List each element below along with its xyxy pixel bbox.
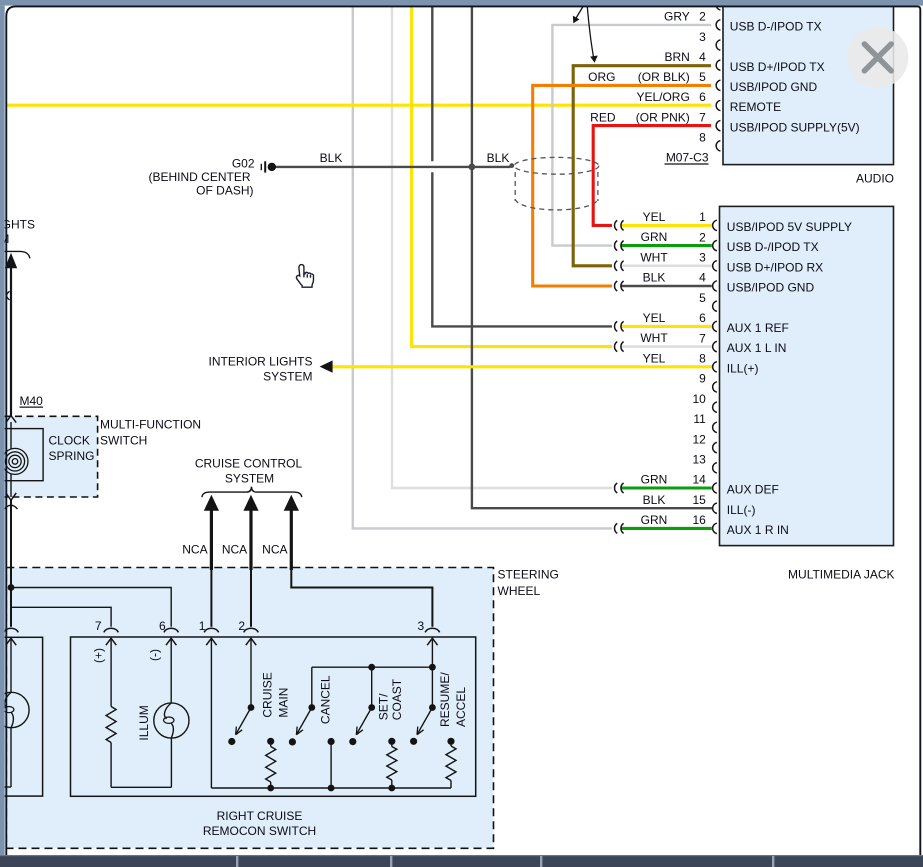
svg-text:M07-C3: M07-C3: [666, 151, 709, 165]
label NCA 3: [262, 542, 287, 556]
svg-text:NCA: NCA: [222, 542, 247, 556]
mouse cursor: [296, 265, 313, 288]
wire stub BLK pin4 multimedia: [621, 285, 712, 288]
svg-text:USB/IPOD SUPPLY(5V): USB/IPOD SUPPLY(5V): [730, 120, 860, 134]
wire RED from audio pin 7 to multimedia pin 1: [593, 126, 711, 226]
svg-text:1: 1: [199, 619, 206, 633]
clock spring exit arrow: [6, 493, 16, 500]
label SET/: [376, 693, 390, 720]
multimedia pin 14: [615, 473, 779, 497]
svg-text:3: 3: [699, 251, 706, 265]
viewer left bar: [0, 6, 5, 855]
label CANCEL: [318, 675, 332, 724]
svg-text:BLK: BLK: [487, 151, 510, 165]
svg-text:USB D-/IPOD TX: USB D-/IPOD TX: [727, 240, 819, 254]
svg-text:BLK: BLK: [643, 493, 666, 507]
svg-text:13: 13: [692, 453, 706, 467]
multimedia pin 12: [692, 432, 716, 453]
NCA arrow 2: [243, 495, 258, 627]
label SYSTEM (interior lights): [263, 369, 312, 383]
svg-text:4: 4: [699, 271, 706, 285]
label NCA 1: [182, 542, 207, 556]
svg-text:14: 14: [692, 473, 706, 487]
label MULTI-FUNCTION: [100, 418, 201, 432]
svg-text:(OR BLK): (OR BLK): [638, 70, 690, 84]
junction dot BLK wires: [469, 164, 476, 171]
svg-text:OF DASH): OF DASH): [196, 183, 253, 197]
svg-text:10: 10: [692, 392, 706, 406]
multimedia pin 3: [615, 250, 824, 274]
remocon pin 6 connector: [164, 628, 178, 645]
svg-text:GRN: GRN: [641, 473, 668, 487]
NCA arrow 3: [284, 495, 299, 589]
wire GRY from audio pin 2 to multimedia pin 2: [552, 25, 711, 246]
audio pin 6: [636, 90, 781, 114]
svg-text:INTERIOR LIGHTS: INTERIOR LIGHTS: [0, 217, 35, 231]
wire stub GRN pin2 multimedia: [621, 244, 712, 247]
svg-text:16: 16: [692, 513, 706, 527]
wire stub WHT pin3 multimedia: [621, 264, 712, 267]
label RIGHT CRUISE: [217, 809, 303, 823]
svg-text:9: 9: [699, 372, 706, 386]
svg-text:YEL: YEL: [643, 210, 666, 224]
label SWITCH (multi-function): [100, 434, 147, 448]
wire to remocon pin 7: [11, 607, 111, 627]
label AUDIO: [856, 172, 894, 186]
inline connector below clock spring: [5, 500, 18, 627]
svg-text:6: 6: [699, 311, 706, 325]
multimedia pin 13: [692, 453, 716, 474]
svg-text:12: 12: [692, 432, 706, 446]
shielded-cable dashed symbol: [514, 157, 599, 210]
svg-text:USB D-/IPOD TX: USB D-/IPOD TX: [730, 20, 822, 34]
svg-text:CLOCK: CLOCK: [49, 434, 90, 448]
label BLK right: [487, 151, 510, 165]
left wire junction dot: [8, 584, 15, 591]
label ACCEL: [454, 687, 468, 727]
svg-text:8: 8: [699, 131, 706, 145]
svg-text:USB/IPOD GND: USB/IPOD GND: [730, 80, 818, 94]
remocon pin 3 connector: [425, 628, 439, 645]
svg-text:AUX DEF: AUX DEF: [727, 483, 779, 497]
wire YEL ILL(+) to multimedia pin 8: [332, 365, 712, 368]
svg-text:7: 7: [699, 331, 706, 345]
resistor cruise-main branch: [266, 738, 276, 792]
multimedia pin 11: [693, 412, 717, 433]
svg-text:6: 6: [699, 90, 706, 104]
svg-text:(+): (+): [92, 648, 106, 663]
svg-text:RIGHT CRUISE: RIGHT CRUISE: [217, 809, 303, 823]
svg-text:YEL: YEL: [643, 351, 666, 365]
label pin 1: [199, 619, 206, 633]
label (-): [148, 649, 162, 661]
close button: [847, 27, 908, 88]
svg-text:2: 2: [238, 619, 245, 633]
connector box AUDIO (M07-C3): [723, 4, 894, 165]
svg-text:STEERING: STEERING: [498, 568, 559, 582]
svg-text:MULTI-FUNCTION: MULTI-FUNCTION: [100, 418, 201, 432]
multimedia pin 9: [699, 372, 717, 393]
pin7 circuit with resistor: [106, 638, 171, 787]
label pin 7: [95, 619, 102, 633]
svg-text:ILL(+): ILL(+): [727, 361, 759, 375]
cancel feed rail: [312, 664, 436, 708]
left box lamp wire lower: [0, 728, 11, 787]
label (BEHIND CENTER: [148, 170, 250, 184]
svg-text:BLK: BLK: [643, 271, 666, 285]
svg-text:INTERIOR LIGHTS: INTERIOR LIGHTS: [208, 355, 312, 369]
multimedia pin 4: [615, 271, 815, 295]
label WHEEL: [498, 584, 541, 598]
audio pin 5: [588, 70, 817, 94]
wire ORG from audio pin 5 to multimedia pin 4: [533, 85, 711, 286]
svg-text:USB D+/IPOD TX: USB D+/IPOD TX: [730, 60, 825, 74]
svg-text:REMOCON SWITCH: REMOCON SWITCH: [203, 824, 316, 838]
label INTERIOR LIGHTS: [208, 355, 312, 369]
svg-text:AUX 1 R IN: AUX 1 R IN: [727, 523, 789, 537]
clock spring wire lower: [10, 474, 12, 497]
svg-text:G02: G02: [232, 157, 255, 171]
multimedia pin 16: [615, 513, 789, 537]
clock spring inner box: [0, 429, 43, 481]
multimedia pin 7: [615, 331, 787, 355]
label SYSTEM (cruise control): [225, 471, 274, 485]
wire GRY vertical feed (silver) to multimedia pin 16: [353, 7, 612, 528]
left box lamp wire upper: [10, 638, 12, 692]
pin2 wire: [250, 638, 252, 707]
label OF DASH): [196, 183, 253, 197]
audio pin 1 arc (cut at top): [716, 0, 720, 10]
svg-text:ORG: ORG: [588, 70, 615, 84]
label pin 6: [159, 619, 166, 633]
label M40: [20, 394, 44, 408]
steering wheel dashed enclosure: [6, 568, 493, 849]
svg-text:AUX 1 L IN: AUX 1 L IN: [727, 341, 787, 355]
svg-text:(-): (-): [148, 649, 162, 661]
label NCA 2: [222, 542, 247, 556]
label MAIN: [276, 688, 290, 718]
multimedia pin 10: [692, 392, 716, 413]
pin1 wire to bus: [210, 638, 212, 788]
left switch box (cut): [0, 637, 43, 796]
svg-text:SPRING: SPRING: [49, 449, 95, 463]
svg-text:AUDIO: AUDIO: [856, 172, 894, 186]
multimedia pin 2: [615, 230, 819, 254]
svg-text:ILL(-): ILL(-): [727, 503, 756, 517]
wire to remocon pin 6: [11, 588, 171, 627]
svg-text:MULTIMEDIA JACK: MULTIMEDIA JACK: [788, 568, 894, 582]
wire jog to remocon pin 3: [291, 588, 432, 627]
remocon pin 1 connector: [204, 628, 218, 645]
inline connector on left wire: [7, 291, 10, 300]
svg-text:ACCEL: ACCEL: [454, 687, 468, 727]
svg-text:GRN: GRN: [641, 230, 668, 244]
label pin 3: [418, 619, 425, 633]
svg-text:3: 3: [699, 30, 706, 44]
svg-text:COAST: COAST: [390, 678, 404, 720]
svg-text:7: 7: [95, 619, 102, 633]
switch CRUISE MAIN: [228, 704, 254, 745]
svg-text:ILLUM: ILLUM: [137, 705, 151, 740]
svg-text:SET/: SET/: [376, 693, 390, 720]
svg-text:CRUISE: CRUISE: [260, 672, 274, 717]
label MULTIMEDIA JACK: [788, 568, 894, 582]
svg-text:4: 4: [699, 50, 706, 64]
svg-text:SWITCH: SWITCH: [100, 434, 147, 448]
annotation arrow B: [587, 7, 597, 63]
wire stub WHT pin7 multimedia: [621, 345, 712, 348]
svg-text:REMOTE: REMOTE: [730, 100, 781, 114]
resistor set/coast branch: [387, 738, 397, 792]
clock spring entry arrow: [6, 416, 16, 423]
wire stub YEL pin1 multimedia: [621, 224, 712, 227]
audio pin 4: [664, 50, 824, 74]
svg-text:GRN: GRN: [641, 513, 668, 527]
multimedia pin 15: [643, 493, 756, 517]
audio pin 3: [699, 30, 720, 51]
svg-text:RESUME/: RESUME/: [438, 672, 452, 727]
left box lamp: [0, 692, 29, 727]
resistor resume branch: [446, 738, 456, 781]
svg-text:YEL/ORG: YEL/ORG: [636, 90, 689, 104]
svg-text:MAIN: MAIN: [276, 688, 290, 718]
bottom table bar: [0, 855, 923, 867]
svg-text:YEL: YEL: [643, 311, 666, 325]
multi-function switch dashed enclosure: [0, 416, 98, 497]
label pin 2: [238, 619, 245, 633]
label G02: [232, 157, 255, 171]
remocon switch box: [71, 637, 476, 796]
label CRUISE: [260, 672, 274, 717]
multimedia pin 5: [699, 291, 717, 312]
clock spring coil: [2, 448, 28, 474]
brace cruise control: [202, 487, 302, 498]
svg-text:RED: RED: [590, 110, 616, 124]
ground G02 symbol: [261, 161, 276, 172]
arrow to interior lights system: [320, 360, 333, 372]
remocon pin 7 connector: [104, 628, 118, 645]
svg-text:BLK: BLK: [320, 151, 343, 165]
audio pin 8: [699, 131, 720, 152]
left box pin arc: [4, 628, 18, 632]
svg-text:USB D+/IPOD RX: USB D+/IPOD RX: [727, 260, 823, 274]
label BLK left: [320, 151, 343, 165]
multimedia pin 8: [643, 351, 759, 375]
svg-text:WHT: WHT: [640, 331, 668, 345]
switch SET/COAST: [349, 704, 375, 745]
label COAST: [390, 678, 404, 720]
svg-text:USB/IPOD GND: USB/IPOD GND: [727, 281, 815, 295]
svg-text:BRN: BRN: [664, 50, 689, 64]
svg-text:6: 6: [159, 619, 166, 633]
svg-text:M40: M40: [20, 394, 44, 408]
svg-text:11: 11: [693, 412, 706, 426]
wire BLK vertical feed to multimedia pin 6 (with hop gap): [432, 7, 612, 326]
label interior lights (cut left): [0, 217, 35, 246]
svg-text:1: 1: [699, 210, 706, 224]
svg-text:CRUISE CONTROL: CRUISE CONTROL: [195, 457, 303, 471]
switch RESUME/ACCEL: [410, 704, 436, 745]
label REMOCON SWITCH: [203, 824, 316, 838]
wire BRN from audio pin 4 to multimedia pin 3: [573, 66, 711, 266]
NCA arrow 1: [204, 495, 219, 627]
svg-text:2: 2: [699, 230, 706, 244]
wire stub GRN pin16 multimedia: [621, 527, 712, 530]
shield drain dot: [509, 163, 514, 168]
multimedia pin 1: [615, 210, 852, 234]
connector box MULTIMEDIA JACK: [720, 206, 894, 545]
wire stub GRN pin14 multimedia: [621, 486, 712, 489]
label (+): [92, 648, 106, 663]
remocon pin 2 connector: [244, 628, 258, 645]
cancel stub: [328, 738, 335, 791]
lamp ILLUM: [154, 638, 189, 738]
svg-text:15: 15: [692, 493, 706, 507]
wire YEL horizontal REMOTE (audio pin 6): [7, 104, 712, 107]
svg-text:2: 2: [699, 10, 706, 24]
svg-text:GRY: GRY: [664, 10, 690, 24]
wire YEL vertical feed to multimedia pin 7: [412, 7, 612, 347]
svg-text:(BEHIND CENTER: (BEHIND CENTER: [148, 170, 250, 184]
switch CANCEL: [289, 704, 315, 745]
pin3 wire: [431, 638, 433, 707]
audio pin 2: [664, 10, 822, 34]
audio pin 7: [590, 110, 859, 134]
svg-text:5: 5: [699, 291, 706, 305]
svg-text:WHT: WHT: [640, 250, 668, 264]
wire BLK ground G02 horizontal: [276, 166, 511, 168]
up arrow to lights system: [5, 253, 17, 416]
svg-text:NCA: NCA: [262, 542, 287, 556]
bus bottom: [211, 781, 451, 789]
svg-text:3: 3: [418, 619, 425, 633]
svg-text:WHEEL: WHEEL: [498, 584, 541, 598]
wire BLK vertical to multimedia pin 15 ILL(-): [472, 7, 712, 508]
off-page brace end top-left: [2, 251, 30, 258]
label CLOCK: [49, 434, 90, 448]
svg-text:NCA: NCA: [182, 542, 207, 556]
svg-text:USB/IPOD 5V SUPPLY: USB/IPOD 5V SUPPLY: [727, 220, 852, 234]
label STEERING: [498, 568, 559, 582]
svg-text:8: 8: [699, 352, 706, 366]
wire WHT vertical feed to multimedia pin 14: [392, 7, 612, 488]
svg-text:AUX 1 REF: AUX 1 REF: [727, 321, 789, 335]
annotation arrow A: [573, 7, 583, 24]
clock spring wire upper: [10, 422, 12, 449]
svg-text:5: 5: [699, 70, 706, 84]
multimedia pin 6: [615, 311, 789, 335]
label ILLUM: [137, 705, 151, 740]
svg-text:7: 7: [699, 110, 706, 124]
label CRUISE CONTROL: [195, 457, 303, 471]
viewer top bar: [0, 0, 923, 6]
left box entry arrow: [6, 638, 16, 645]
label SPRING: [49, 449, 95, 463]
label RESUME/: [438, 672, 452, 727]
wire stub YEL pin6 multimedia: [621, 325, 712, 328]
label M07-C3: [665, 151, 709, 165]
svg-text:SYSTEM: SYSTEM: [263, 369, 312, 383]
svg-text:SYSTEM: SYSTEM: [225, 471, 274, 485]
svg-text:CANCEL: CANCEL: [318, 675, 332, 724]
svg-text:(OR PNK): (OR PNK): [636, 110, 690, 124]
